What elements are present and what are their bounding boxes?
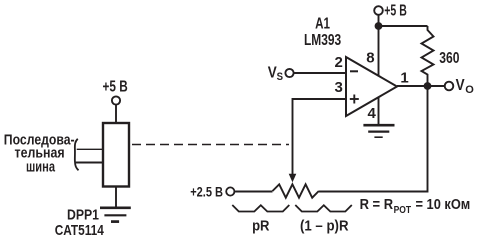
wire serial bus lower: [76, 162, 103, 164]
wire output pin 1: [397, 85, 445, 87]
label A1: [315, 15, 330, 32]
svg-text:360: 360: [439, 50, 459, 67]
brace serial bus: [75, 139, 79, 171]
svg-text:O: O: [465, 84, 474, 96]
svg-text:4: 4: [368, 105, 377, 122]
pin number 3: [335, 79, 343, 96]
svg-text:1: 1: [400, 70, 408, 87]
svg-text:A1: A1: [315, 15, 330, 32]
terminal VO: [445, 82, 454, 91]
label serial bus line 2: [15, 146, 65, 162]
wire pin 4 to ground: [378, 97, 380, 125]
svg-text:+5 В: +5 В: [103, 78, 128, 95]
label R = RPOT = 10 kOhm: [360, 197, 471, 216]
pin number 2: [335, 54, 343, 71]
terminal VS: [285, 69, 293, 77]
terminal +2.5 V: [226, 187, 234, 195]
pin number 1: [400, 70, 408, 87]
pin number 8: [366, 50, 374, 67]
wire dashed control link DPP1 to potentiometer: [132, 144, 289, 146]
svg-text:R = R: R = R: [360, 197, 394, 213]
op-amp U1 (comparator triangle): [346, 57, 397, 116]
pin number 4: [368, 105, 377, 122]
svg-text:= 10 кОм: = 10 кОм: [416, 197, 471, 213]
svg-text:V: V: [456, 77, 466, 94]
ground (comparator): [363, 125, 394, 137]
svg-text:LM393: LM393: [304, 32, 341, 49]
wire DPP1 box to ground: [115, 187, 117, 208]
terminal +5 V left: [112, 96, 120, 104]
wire +5V node to resistor R1: [379, 25, 428, 27]
wire VS to pin 2: [294, 72, 346, 74]
wire +2.5V to potentiometer: [234, 191, 272, 193]
node output junction: [424, 82, 432, 90]
wire +5V terminal to node: [378, 15, 380, 24]
minus sign inverting input: [350, 70, 358, 72]
svg-text:(1 – p)R: (1 – p)R: [300, 218, 349, 234]
svg-text:pR: pR: [252, 218, 270, 234]
wire serial bus upper: [77, 148, 103, 150]
wire pin 8 to +5V node: [378, 26, 380, 77]
resistor R1 360: [422, 26, 434, 83]
label CAT5114: [55, 222, 105, 239]
label VS: [268, 64, 283, 83]
svg-text:CAT5114: CAT5114: [55, 222, 105, 239]
label VO: [456, 77, 475, 96]
svg-text:3: 3: [335, 79, 343, 96]
ground (DPP1): [100, 208, 131, 222]
svg-text:шина: шина: [26, 159, 56, 175]
svg-text:2: 2: [335, 54, 343, 71]
svg-text:8: 8: [366, 50, 374, 67]
potentiometer RPOT: [273, 184, 319, 197]
svg-text:+2.5 В: +2.5 В: [190, 185, 223, 201]
label DPP1: [67, 206, 99, 223]
label (1-p)R: [300, 218, 349, 234]
label serial bus line 1: [4, 132, 75, 148]
svg-text:S: S: [277, 71, 283, 83]
wire pin 3 to wiper (with arrow): [289, 99, 346, 182]
label +5 V (left supply): [103, 78, 128, 95]
wire +5V terminal to DPP1 box: [115, 105, 117, 123]
brace pR: [232, 205, 289, 212]
label LM393: [304, 32, 341, 49]
digital potentiometer DPP1 body: [103, 123, 129, 187]
node +5V junction: [375, 22, 383, 30]
svg-text:DPP1: DPP1: [67, 206, 99, 223]
label +5 V right: [384, 3, 407, 20]
label pR: [252, 218, 270, 234]
terminal +5 V right: [374, 6, 383, 15]
plus sign non-inverting input: [350, 95, 359, 104]
label serial bus line 3: [26, 159, 56, 175]
svg-text:POT: POT: [394, 204, 412, 216]
brace (1-p)R: [295, 205, 352, 212]
wire potentiometer to output node: [319, 86, 428, 192]
value label 360: [439, 50, 459, 67]
label +2.5 V: [190, 185, 223, 201]
svg-text:+5 В: +5 В: [384, 3, 407, 20]
